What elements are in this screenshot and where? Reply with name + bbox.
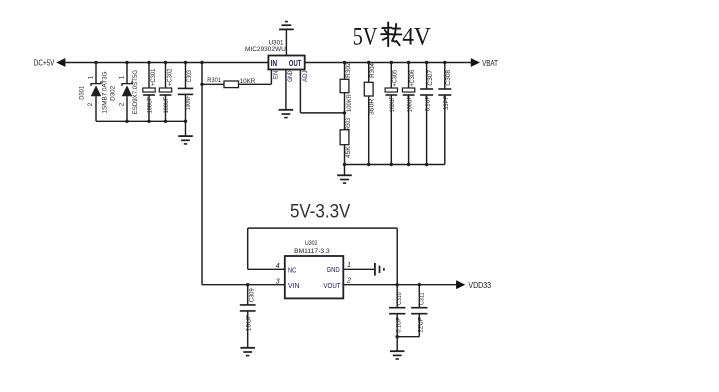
input arrow DC+5V xyxy=(56,58,65,67)
wire EN pin xyxy=(270,70,272,85)
svg-text:0.1UF: 0.1UF xyxy=(425,96,432,111)
svg-text:R302: R302 xyxy=(345,62,352,78)
svg-text:100UF: 100UF xyxy=(163,97,170,114)
svg-text:ESD9X7.0ST5G: ESD9X7.0ST5G xyxy=(132,70,139,114)
junction R303/bottom rail xyxy=(343,163,346,166)
svg-text:VDD33: VDD33 xyxy=(468,281,491,290)
svg-text:C307: C307 xyxy=(427,69,434,85)
svg-text:C310: C310 xyxy=(396,292,403,305)
ground G2 flipped above U301 xyxy=(279,22,294,30)
junction C307/bottom rail xyxy=(425,163,428,166)
diode D302 xyxy=(126,63,128,84)
svg-text:+C301: +C301 xyxy=(150,68,157,86)
wire NC feedback loop xyxy=(248,227,398,229)
svg-text:C311: C311 xyxy=(418,292,425,305)
svg-text:5V-3.3V: 5V-3.3V xyxy=(290,201,350,223)
output arrow VBAT xyxy=(471,58,480,67)
svg-text:45K: 45K xyxy=(345,145,352,158)
svg-text:R301: R301 xyxy=(207,77,221,84)
svg-text:3: 3 xyxy=(276,278,280,285)
wire VOUT line to VDD33 xyxy=(343,284,456,286)
svg-text:2: 2 xyxy=(119,102,126,106)
junction D301/rail xyxy=(94,61,97,64)
wire pin 4 NC xyxy=(248,268,285,270)
svg-text:22UF: 22UF xyxy=(417,317,424,332)
output arrow VDD33 xyxy=(456,280,465,289)
svg-text:+C306: +C306 xyxy=(409,69,416,86)
resistor R302 xyxy=(344,63,346,80)
svg-text:100UF: 100UF xyxy=(406,96,413,112)
resistor R301 xyxy=(202,83,224,85)
wire ADJ pin of U301 xyxy=(299,70,301,113)
op-amp U1 regulator U301 box xyxy=(268,56,304,70)
capacitor C305 xyxy=(390,63,392,89)
wire VIN line xyxy=(202,284,285,286)
svg-text:10KR: 10KR xyxy=(240,78,256,85)
svg-text:R303: R303 xyxy=(345,118,352,130)
svg-text:100KR: 100KR xyxy=(346,94,353,112)
svg-text:1: 1 xyxy=(88,75,95,79)
title 5V to 4V (hand-drawn CJK zhuan) xyxy=(353,22,431,50)
junction D302/bottom rail xyxy=(125,120,128,123)
junction C310/C311 gnd xyxy=(396,335,399,338)
regulator U302 box xyxy=(285,256,344,298)
svg-text:360R: 360R xyxy=(368,98,375,115)
svg-text:100UF: 100UF xyxy=(389,96,396,112)
capacitor C309 xyxy=(246,283,249,286)
svg-text:100NF: 100NF xyxy=(185,96,192,110)
resistor R304 xyxy=(368,63,370,83)
svg-text:C308: C308 xyxy=(445,69,452,85)
capacitor C310 xyxy=(396,285,398,308)
svg-text:C309: C309 xyxy=(248,288,255,302)
svg-text:BM1117-3.3: BM1117-3.3 xyxy=(294,248,330,255)
wire U301 top stem xyxy=(285,29,287,55)
svg-text:33PF: 33PF xyxy=(443,96,450,110)
junction C306/rail xyxy=(407,61,410,64)
svg-text:2: 2 xyxy=(346,278,351,285)
wire to ground G4 xyxy=(344,165,346,176)
svg-text:0.1UF: 0.1UF xyxy=(395,317,402,332)
svg-text:4V: 4V xyxy=(402,23,431,50)
svg-text:1SMB7.0AT3G: 1SMB7.0AT3G xyxy=(101,71,108,113)
wire output group bottom rail xyxy=(345,164,445,166)
junction D302/rail xyxy=(125,61,128,64)
resistor R303 xyxy=(344,113,346,130)
svg-text:1: 1 xyxy=(119,75,126,79)
svg-text:IN: IN xyxy=(271,58,278,68)
svg-text:10UF: 10UF xyxy=(245,314,252,331)
junction C307/rail xyxy=(425,61,428,64)
svg-text:VOUT: VOUT xyxy=(323,281,341,290)
wire pin 1 GND xyxy=(343,268,375,270)
wire GND pin of U301 xyxy=(285,70,287,110)
svg-text:2: 2 xyxy=(87,102,94,106)
wire output rail to VBAT xyxy=(305,62,471,64)
svg-text:DC+5V: DC+5V xyxy=(34,59,55,68)
junction C305/bottom rail xyxy=(390,163,393,166)
junction R301/branch wire xyxy=(200,83,203,86)
svg-text:MIC29302WU: MIC29302WU xyxy=(245,46,286,53)
svg-text:ADJ: ADJ xyxy=(302,70,309,82)
svg-text:C303: C303 xyxy=(186,70,193,82)
capacitor C307 xyxy=(426,63,428,90)
junction C305/rail xyxy=(390,61,393,64)
svg-text:1: 1 xyxy=(347,262,351,269)
wire to ground G1 xyxy=(185,121,187,136)
svg-text:R304: R304 xyxy=(369,63,376,78)
svg-text:+C302: +C302 xyxy=(167,68,174,86)
ground G1 xyxy=(178,136,193,144)
junction C303/rail xyxy=(184,61,187,64)
capacitor C303 xyxy=(185,63,187,89)
svg-text:NC: NC xyxy=(288,265,297,274)
svg-text:4: 4 xyxy=(276,263,280,270)
ground G6 xyxy=(240,348,255,356)
wire input group bottom rail xyxy=(96,120,186,122)
junction R304/bottom rail xyxy=(367,163,370,166)
svg-text:GND: GND xyxy=(327,265,340,274)
ground G7 xyxy=(390,351,405,359)
junction R302/rail xyxy=(343,61,346,64)
svg-text:100UF: 100UF xyxy=(147,97,154,114)
wire input rail xyxy=(65,62,268,64)
ground G5 sideways xyxy=(375,263,384,276)
svg-text:OUT: OUT xyxy=(289,58,302,68)
svg-text:EN: EN xyxy=(272,70,279,79)
svg-text:GND: GND xyxy=(287,70,294,82)
junction C302/rail xyxy=(164,61,167,64)
junction C301/bottom rail xyxy=(147,120,150,123)
svg-text:5V: 5V xyxy=(353,23,378,50)
junction ADJ node xyxy=(343,111,346,114)
capacitor C302 xyxy=(165,63,167,89)
diode D301 xyxy=(95,63,97,84)
ground G4 xyxy=(337,175,352,183)
junction C302/bottom rail xyxy=(164,120,167,123)
svg-text:+C305: +C305 xyxy=(391,69,398,86)
capacitor C311 xyxy=(418,283,421,286)
junction feedback/VOUT xyxy=(396,283,399,286)
svg-text:VIN: VIN xyxy=(288,281,300,290)
junction C306/bottom rail xyxy=(407,163,410,166)
junction C303/bottom rail xyxy=(184,120,187,123)
capacitor C308 xyxy=(444,63,446,90)
capacitor C306 xyxy=(408,63,410,89)
svg-text:D301: D301 xyxy=(79,85,86,99)
capacitor C301 xyxy=(148,63,150,89)
junction R304/rail xyxy=(367,61,370,64)
wire branch to 3.3V section xyxy=(201,63,203,285)
wire C311 to ground rail xyxy=(397,336,419,338)
junction C301/rail xyxy=(147,61,150,64)
junction C308/rail xyxy=(443,61,446,64)
svg-text:U302: U302 xyxy=(305,240,318,247)
svg-text:VBAT: VBAT xyxy=(482,59,498,68)
svg-text:D302: D302 xyxy=(110,85,117,100)
ground G3 below U301 xyxy=(279,110,294,118)
junction branch/rail xyxy=(200,61,203,64)
